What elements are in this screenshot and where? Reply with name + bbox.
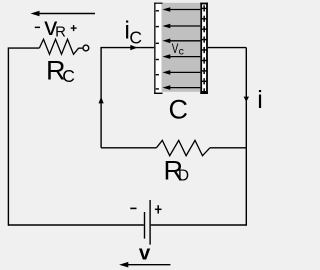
svg-text:C: C: [62, 66, 75, 86]
annotation arrow: loop current direction (top left): [31, 11, 96, 17]
label: iC: [124, 17, 142, 48]
label: i: [257, 86, 263, 114]
label: vC (capacitor voltage): [172, 41, 184, 57]
svg-text:R: R: [55, 23, 66, 40]
resistor RC: [39, 39, 83, 54]
wire: bottom rail left of battery: [8, 224, 143, 226]
svg-text:C: C: [129, 28, 142, 48]
label: C: [169, 95, 189, 125]
label: v (source voltage): [139, 242, 151, 265]
capacitor C: right plate (positive): [200, 3, 208, 94]
svg-text:V: V: [172, 41, 179, 56]
capacitor C: left plate (negative): [154, 3, 162, 94]
wire: left rail (top corner to bottom-left corner): [8, 48, 39, 226]
battery: long (positive) plate: [149, 200, 150, 245]
wire: node corner to capacitor left plate (with iC direction): [101, 48, 154, 148]
battery: short (negative) plate: [144, 212, 145, 239]
label: polarity plus of vR: [71, 25, 77, 31]
label: polarity minus of vR: [35, 27, 40, 29]
svg-text:v: v: [139, 242, 151, 265]
plus charge marks on right plate: [201, 5, 207, 94]
open terminal circle of RC: [83, 45, 89, 51]
svg-text:C: C: [169, 95, 189, 125]
electric field arrows inside capacitor: [162, 7, 200, 90]
wire: right rail (down to bottom-right corner): [245, 48, 247, 226]
arrowhead: current up on left inner wire: [99, 97, 104, 104]
label: vR: [44, 11, 66, 41]
capacitor C: dielectric region: [162, 3, 201, 92]
svg-text:i: i: [257, 86, 263, 114]
arrowhead: iC current into capacitor: [130, 45, 137, 50]
resistor RD: [156, 140, 210, 155]
svg-text:D: D: [178, 167, 189, 184]
minus charge marks on left plate: [156, 10, 159, 90]
battery: plus label: [155, 205, 162, 213]
wire: bottom rail right of battery: [151, 224, 247, 226]
wire: inner loop horizontal right segment: [210, 147, 246, 149]
label: RC: [46, 56, 75, 86]
annotation arrow: source polarity direction (bottom): [119, 262, 170, 268]
arrowhead: current i down on right rail: [244, 97, 249, 102]
battery: minus label: [130, 208, 136, 210]
wire: right plate to right rail: [208, 47, 246, 49]
svg-text:c: c: [179, 45, 184, 57]
label: RD: [164, 156, 190, 186]
wire: inner loop horizontal left segment: [101, 147, 156, 149]
